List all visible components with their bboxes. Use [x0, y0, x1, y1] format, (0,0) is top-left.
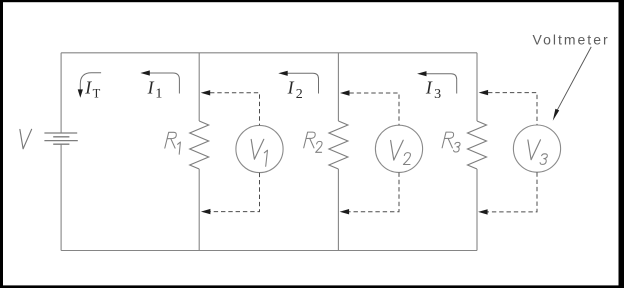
- label V (source): [20, 129, 32, 149]
- battery source V: [44, 133, 77, 144]
- resistor R1: [190, 121, 209, 169]
- Voltmeter leader arrow: [557, 47, 591, 110]
- dashed lead V1 bottom: [210, 173, 260, 212]
- wire branch 2 upper: [337, 53, 339, 121]
- arrowhead V1 bottom: [201, 209, 211, 214]
- svg-text:3: 3: [434, 87, 441, 102]
- svg-text:I: I: [425, 77, 433, 97]
- dashed lead V2 bottom: [349, 173, 399, 212]
- svg-text:T: T: [93, 86, 101, 100]
- svg-text:I: I: [287, 77, 295, 97]
- wire left lower: [60, 144, 62, 250]
- svg-text:2: 2: [296, 87, 303, 102]
- voltmeter V2 circle: [375, 125, 422, 172]
- label R2: [304, 132, 322, 152]
- resistor R3: [468, 121, 487, 169]
- current arrow I1: [149, 73, 180, 94]
- wire branch 3 lower: [476, 169, 478, 251]
- arrowhead V1 top: [201, 90, 211, 95]
- current arrow I3: [425, 74, 456, 94]
- svg-text:Voltmeter: Voltmeter: [533, 31, 610, 47]
- svg-text:I: I: [147, 77, 155, 97]
- wire branch 3 upper: [476, 53, 478, 121]
- arrowhead V3 top: [479, 90, 489, 95]
- arrowhead V3 bottom: [478, 209, 488, 214]
- svg-text:I: I: [84, 78, 92, 98]
- arrowhead V2 top: [340, 90, 350, 95]
- voltmeter V3 circle: [513, 125, 560, 172]
- dashed lead V3 bottom: [488, 172, 538, 212]
- dashed lead V2 top: [349, 93, 399, 125]
- label V1: [251, 139, 264, 159]
- label V2: [391, 140, 404, 160]
- voltmeter V1 circle: [236, 125, 283, 172]
- wire branch 2 lower: [337, 169, 339, 251]
- wire branch 1 upper: [198, 53, 200, 121]
- wire left upper: [60, 53, 62, 133]
- dashed lead V3 top: [488, 93, 537, 125]
- label R3: [442, 132, 460, 152]
- resistor R2: [329, 121, 348, 169]
- label V3: [528, 140, 541, 160]
- wire bottom: [61, 250, 477, 252]
- label R1: [165, 132, 181, 154]
- arrowhead V2 bottom: [340, 209, 350, 214]
- wire branch 1 lower: [198, 169, 200, 251]
- current arrow IT: [80, 73, 101, 90]
- dashed lead V1 top: [210, 93, 260, 126]
- wire top: [61, 52, 477, 54]
- current arrow I2: [287, 73, 319, 93]
- svg-text:1: 1: [155, 87, 162, 102]
